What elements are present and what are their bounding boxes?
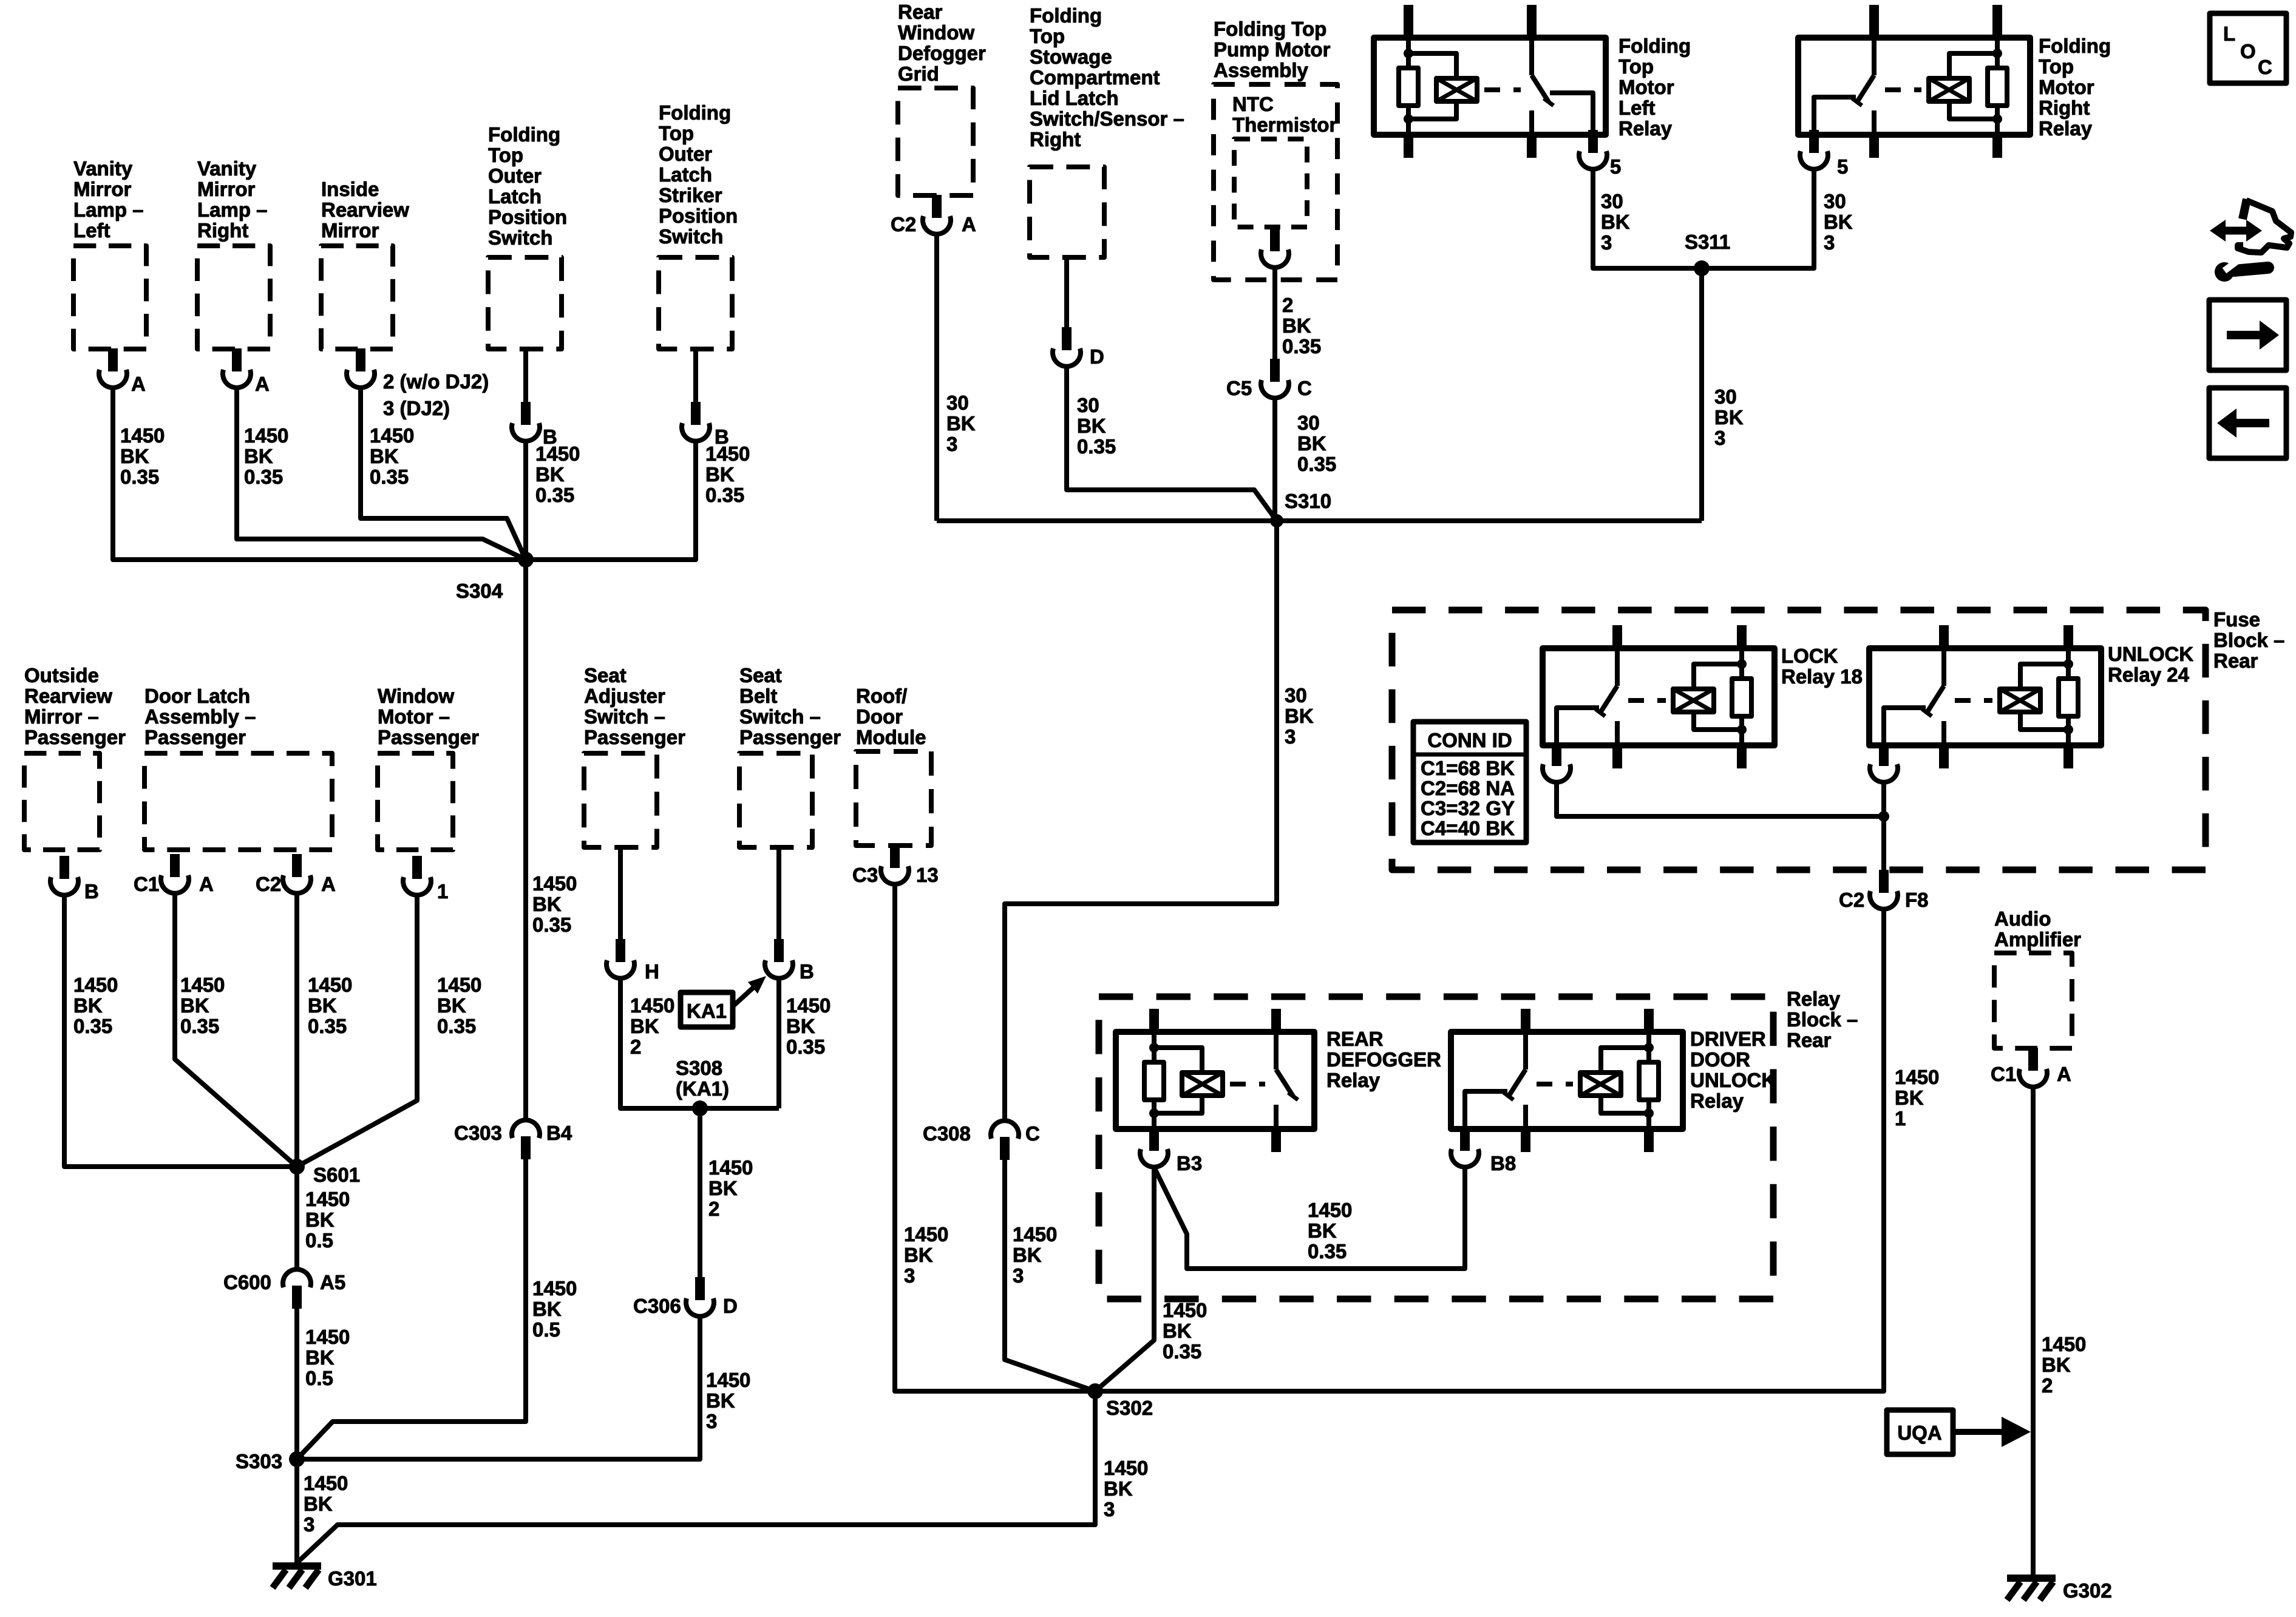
svg-text:BK: BK [1601, 211, 1630, 233]
svg-text:1450: 1450 [305, 1326, 350, 1348]
DRIVER DOOR UNLOCK resistor [1646, 1032, 1651, 1062]
svg-text:1450: 1450 [1163, 1299, 1207, 1321]
svg-text:Relay: Relay [1787, 988, 1841, 1010]
KA1 flag [681, 992, 733, 1027]
svg-text:S601: S601 [313, 1164, 360, 1186]
svg-text:Passenger: Passenger [24, 726, 126, 748]
svg-text:(KA1): (KA1) [676, 1077, 729, 1100]
svg-text:0.35: 0.35 [1308, 1240, 1347, 1263]
svg-text:0.35: 0.35 [120, 466, 159, 488]
svg-text:Seat: Seat [739, 664, 782, 686]
wire latch switch stub [523, 349, 528, 405]
svg-text:BK: BK [437, 994, 466, 1017]
wire C2-F8 down to S302 bus [1095, 909, 1884, 1391]
svg-text:G301: G301 [328, 1567, 377, 1590]
wire NTC to C5 [1272, 266, 1277, 362]
svg-text:30: 30 [1077, 394, 1099, 416]
svg-text:C600: C600 [223, 1271, 271, 1293]
wire defogger grid to S310 bus [934, 234, 939, 521]
connector C303 B4 [521, 1136, 531, 1159]
svg-text:Position: Position [488, 206, 567, 228]
folding top motor right relay body [1798, 38, 2030, 135]
svg-text:Door: Door [856, 705, 903, 728]
wire S601 down to C600 [294, 1167, 299, 1270]
svg-text:D: D [1090, 345, 1104, 368]
wire S303 down to ground [294, 1459, 299, 1562]
UQA arrow [1953, 1429, 2003, 1435]
svg-text:0.35: 0.35 [73, 1015, 112, 1037]
REAR DEFOGGER resistor [1152, 1032, 1156, 1062]
REAR DEFOGGER coil [1182, 1073, 1223, 1096]
svg-text:Relay: Relay [1618, 117, 1673, 140]
LOCK resistor [1739, 648, 1744, 679]
svg-text:0.35: 0.35 [786, 1036, 825, 1058]
svg-text:BK: BK [305, 1346, 335, 1369]
svg-text:Rear: Rear [2213, 649, 2258, 672]
splice S601 [289, 1159, 305, 1175]
svg-text:Left: Left [1618, 97, 1656, 119]
splice S310 [1270, 514, 1283, 527]
svg-text:30: 30 [1714, 385, 1737, 408]
svg-text:Right: Right [197, 219, 248, 242]
connector pin 2/3 (inside mirror) [356, 348, 365, 371]
DRIVER DOOR UNLOCK coil branch [1601, 1048, 1649, 1073]
connector C2 F8 [1879, 870, 1889, 893]
svg-text:B8: B8 [1490, 1152, 1516, 1175]
arrow icon left [2209, 388, 2286, 458]
folding top motor left resistor [1406, 38, 1411, 68]
folding top motor right coil dashes [1885, 87, 1921, 92]
svg-text:1: 1 [437, 880, 448, 903]
folding top motor left coil branch [1408, 53, 1456, 78]
svg-text:3: 3 [304, 1513, 314, 1536]
svg-text:0.35: 0.35 [1297, 453, 1336, 475]
svg-text:30: 30 [1601, 190, 1623, 212]
svg-text:L: L [2223, 22, 2235, 45]
svg-text:Lamp –: Lamp – [73, 198, 144, 221]
svg-text:C2: C2 [891, 213, 916, 236]
connector C5 C [1270, 359, 1280, 382]
connector pin B (striker switch) [691, 402, 701, 425]
wire roof module to S302 [895, 884, 1095, 1391]
svg-text:Thermistor: Thermistor [1232, 114, 1337, 136]
svg-text:S310: S310 [1285, 490, 1331, 512]
wire C5 to S310 [1272, 398, 1277, 521]
REAR DEFOGGER coil branch [1154, 1048, 1202, 1073]
svg-text:Assembly: Assembly [1214, 59, 1309, 81]
svg-text:BK: BK [1297, 432, 1326, 455]
svg-text:2: 2 [2042, 1374, 2053, 1397]
svg-text:Door Latch: Door Latch [144, 685, 250, 707]
svg-text:S304: S304 [456, 580, 503, 602]
svg-text:3: 3 [1714, 427, 1725, 449]
ground G302 [2007, 1575, 2056, 1582]
svg-text:1450: 1450 [437, 974, 481, 996]
svg-text:Mirror: Mirror [197, 178, 256, 200]
wire B to S308 [776, 978, 781, 1108]
svg-text:Folding: Folding [488, 123, 560, 146]
connector C308 C [1000, 1137, 1010, 1160]
svg-text:Top: Top [2039, 55, 2074, 78]
svg-text:BK: BK [535, 463, 565, 486]
svg-text:0.35: 0.35 [1282, 335, 1321, 358]
wire door latch C1 to S601 [175, 893, 297, 1167]
svg-text:C: C [1297, 377, 1312, 399]
Relay Block - Rear boundary [1099, 997, 1773, 1299]
svg-text:DOOR: DOOR [1690, 1048, 1750, 1071]
svg-text:A5: A5 [320, 1271, 345, 1293]
svg-text:Switch –: Switch – [584, 705, 665, 728]
svg-text:BK: BK [946, 412, 976, 435]
UNLOCK coil branch [2020, 664, 2068, 689]
wire H to S308 [620, 978, 779, 1108]
wire left relay to S311 [1593, 169, 1702, 268]
LOCK coil dashes [1628, 698, 1666, 703]
svg-text:Top: Top [659, 122, 694, 144]
svg-text:Relay 24: Relay 24 [2108, 663, 2190, 686]
connector pin (NTC thermistor) [1270, 228, 1280, 251]
svg-text:G302: G302 [2063, 1579, 2112, 1602]
svg-text:BK: BK [308, 994, 337, 1017]
svg-text:A: A [321, 873, 336, 895]
svg-text:BK: BK [532, 893, 562, 915]
svg-text:BK: BK [1285, 705, 1314, 727]
svg-text:Lamp –: Lamp – [197, 198, 268, 221]
svg-text:Rear: Rear [1787, 1029, 1832, 1051]
svg-text:NTC: NTC [1232, 93, 1274, 115]
svg-text:0.5: 0.5 [305, 1367, 333, 1389]
wire B3 down to S302 [1095, 1167, 1154, 1391]
DRIVER DOOR UNLOCK coil [1580, 1073, 1621, 1096]
svg-text:Pump Motor: Pump Motor [1214, 38, 1331, 61]
svg-text:1450: 1450 [244, 424, 288, 447]
LOC icon box [2210, 13, 2286, 83]
folding top motor left relay body [1374, 38, 1606, 135]
connector B8 (driver door unlock relay) [1461, 1129, 1469, 1145]
connector B3 (rear defogger relay) [1150, 1129, 1158, 1145]
svg-text:BK: BK [1824, 211, 1853, 233]
svg-text:B: B [800, 960, 814, 983]
svg-text:0.35: 0.35 [705, 484, 744, 506]
svg-text:2 (w/o DJ2): 2 (w/o DJ2) [383, 370, 489, 393]
svg-text:BK: BK [305, 1209, 335, 1231]
svg-text:H: H [645, 960, 659, 983]
svg-text:0.5: 0.5 [532, 1318, 560, 1341]
svg-text:1450: 1450 [904, 1223, 948, 1246]
svg-text:Module: Module [856, 726, 926, 748]
connector pin B (latch position switch) [521, 402, 531, 425]
svg-text:0.35: 0.35 [308, 1015, 347, 1037]
svg-text:A: A [962, 213, 976, 236]
svg-text:Vanity: Vanity [73, 157, 133, 180]
svg-text:Top: Top [1618, 55, 1654, 78]
svg-text:A: A [199, 873, 214, 895]
folding top motor right switch [1872, 38, 1877, 75]
LOCK relay pins [1612, 625, 1622, 648]
LOCK coil branch [1694, 664, 1742, 689]
DRIVER DOOR UNLOCK coil dashes [1537, 1082, 1573, 1086]
svg-text:Passenger: Passenger [144, 726, 246, 748]
svg-text:BK: BK [73, 994, 103, 1017]
svg-text:1: 1 [1895, 1107, 1906, 1130]
connector pin B (seat belt) [774, 939, 784, 962]
wire inside-mirror to S304 [361, 388, 526, 560]
svg-text:BK: BK [1308, 1219, 1337, 1242]
svg-text:Rearview: Rearview [24, 685, 112, 707]
LOCK relay body [1543, 648, 1775, 745]
svg-text:REAR: REAR [1326, 1028, 1384, 1050]
svg-text:Folding: Folding [2039, 35, 2111, 57]
wire striker switch to S304 [526, 441, 696, 560]
svg-text:Passenger: Passenger [584, 726, 685, 748]
wire C303 down [297, 1153, 526, 1459]
svg-text:1450: 1450 [532, 1277, 577, 1300]
connector pin 5 (left motor relay) [1589, 135, 1597, 148]
svg-text:Folding Top: Folding Top [1214, 18, 1326, 40]
splice S302 [1087, 1383, 1103, 1399]
wire window motor to S601 [297, 895, 417, 1167]
svg-text:Right: Right [1030, 128, 1081, 151]
svg-text:BK: BK [532, 1298, 562, 1320]
connector C306 D [695, 1277, 705, 1300]
svg-text:C306: C306 [633, 1295, 681, 1317]
svg-text:30: 30 [1824, 190, 1846, 212]
svg-text:1450: 1450 [2042, 1333, 2086, 1355]
svg-text:3 (DJ2): 3 (DJ2) [383, 397, 450, 419]
svg-text:Outer: Outer [659, 143, 712, 165]
svg-text:Window: Window [898, 21, 974, 44]
svg-text:Folding: Folding [1618, 35, 1691, 57]
svg-text:BK: BK [708, 1177, 738, 1199]
svg-text:Passenger: Passenger [378, 726, 479, 748]
svg-text:UNLOCK: UNLOCK [2108, 643, 2193, 665]
svg-text:0.5: 0.5 [305, 1229, 333, 1252]
wire vanity-left to S304 [113, 388, 526, 560]
svg-text:C303: C303 [454, 1122, 502, 1144]
svg-text:Switch: Switch [488, 226, 552, 249]
svg-text:Relay 18: Relay 18 [1781, 665, 1863, 688]
svg-text:0.35: 0.35 [437, 1015, 476, 1037]
svg-text:Block –: Block – [1787, 1008, 1858, 1031]
wire right relay to S311 [1702, 169, 1814, 268]
UNLOCK coil dashes [1955, 698, 1992, 703]
svg-text:0.35: 0.35 [370, 466, 409, 488]
svg-text:Outside: Outside [24, 664, 99, 686]
svg-text:Audio: Audio [1994, 907, 2051, 930]
splice S311 [1694, 260, 1710, 276]
svg-text:BK: BK [786, 1015, 815, 1037]
svg-text:C1=68 BK: C1=68 BK [1421, 757, 1515, 779]
svg-text:C: C [2258, 56, 2272, 78]
svg-text:Top: Top [1030, 25, 1065, 47]
svg-text:1450: 1450 [535, 442, 580, 465]
svg-text:BK: BK [180, 994, 209, 1017]
wire outside mirror to S601 [64, 895, 297, 1167]
wire S308 down to C306 [698, 1108, 702, 1281]
svg-text:S311: S311 [1685, 231, 1730, 253]
svg-text:Rearview: Rearview [321, 198, 409, 221]
svg-text:Seat: Seat [584, 664, 627, 686]
svg-text:1450: 1450 [73, 974, 118, 996]
svg-text:Window: Window [378, 685, 454, 707]
svg-text:2: 2 [630, 1036, 641, 1058]
svg-text:0.35: 0.35 [1077, 435, 1116, 458]
svg-text:BK: BK [1714, 406, 1744, 429]
connector C2 A (door latch) [292, 854, 302, 877]
connector pin D (lid latch) [1062, 327, 1072, 350]
DRIVER DOOR UNLOCK switch [1523, 1032, 1528, 1070]
svg-text:KA1: KA1 [687, 1000, 727, 1022]
wire S303 to C303 riser [297, 1422, 333, 1459]
connector C1 A (door latch) [170, 854, 180, 877]
svg-text:Switch: Switch [659, 225, 723, 248]
svg-text:Passenger: Passenger [739, 726, 841, 748]
splice S308 (KA1) [692, 1100, 708, 1116]
svg-text:BK: BK [1013, 1244, 1042, 1266]
svg-text:BK: BK [1104, 1477, 1133, 1500]
svg-text:1450: 1450 [1104, 1457, 1148, 1479]
svg-text:C1: C1 [1991, 1063, 2016, 1085]
svg-text:S308: S308 [676, 1057, 722, 1079]
wire C600 to S303 [294, 1303, 299, 1459]
svg-text:1450: 1450 [532, 872, 577, 895]
rear defogger relay pins [1149, 1009, 1159, 1032]
wire seat belt stub [776, 847, 781, 942]
svg-text:3: 3 [1013, 1264, 1024, 1287]
svg-text:BK: BK [304, 1493, 333, 1515]
svg-text:Relay: Relay [1690, 1090, 1744, 1112]
svg-text:Left: Left [73, 219, 110, 242]
svg-text:Mirror: Mirror [73, 178, 132, 200]
svg-text:LOCK: LOCK [1781, 645, 1838, 667]
svg-text:1450: 1450 [708, 1156, 753, 1179]
folding top motor left coil [1436, 78, 1477, 101]
svg-text:BK: BK [1282, 314, 1311, 337]
svg-text:Right: Right [2039, 97, 2090, 119]
svg-text:1450: 1450 [304, 1472, 348, 1494]
UNLOCK relay body [1869, 648, 2101, 745]
svg-text:BK: BK [904, 1244, 933, 1266]
svg-text:CONN ID: CONN ID [1427, 729, 1512, 751]
connector pin H (seat adjuster) [616, 939, 625, 962]
svg-text:1450: 1450 [120, 424, 165, 447]
svg-text:1450: 1450 [630, 994, 674, 1017]
svg-text:30: 30 [1285, 684, 1307, 707]
svg-text:BK: BK [2042, 1354, 2071, 1376]
svg-text:5: 5 [1610, 155, 1621, 178]
svg-text:A: A [2057, 1063, 2071, 1085]
svg-text:Relay: Relay [2039, 117, 2093, 140]
svg-text:2: 2 [708, 1198, 719, 1220]
connector pin A (vanity lamp right) [232, 348, 242, 371]
folding top motor right resistor [1995, 38, 2000, 68]
wire lid latch to S310 [1067, 367, 1277, 521]
svg-text:1450: 1450 [370, 424, 414, 447]
svg-text:Mirror: Mirror [321, 219, 379, 242]
wire vanity-right to S304 [237, 388, 526, 560]
svg-text:C2: C2 [1839, 889, 1864, 911]
svg-text:1450: 1450 [1895, 1066, 1939, 1088]
REAR DEFOGGER switch [1274, 1032, 1279, 1070]
svg-text:0.35: 0.35 [1163, 1340, 1201, 1363]
svg-text:3: 3 [1601, 231, 1612, 254]
svg-text:Belt: Belt [739, 685, 777, 707]
DRIVER DOOR UNLOCK relay body [1451, 1032, 1683, 1129]
svg-text:S303: S303 [236, 1450, 282, 1473]
UNLOCK switch [1941, 648, 1946, 686]
wire latch switch to S304 [523, 441, 528, 560]
UNLOCK relay pins [1939, 625, 1949, 648]
svg-text:Relay: Relay [1326, 1069, 1381, 1091]
svg-text:1450: 1450 [705, 442, 750, 465]
svg-text:B: B [84, 880, 99, 903]
wire S311 down to bus [1699, 268, 1704, 521]
folding top motor right coil [1929, 78, 1969, 101]
UQA flag [1887, 1410, 1953, 1454]
svg-text:A: A [131, 373, 146, 395]
svg-text:DRIVER: DRIVER [1690, 1028, 1766, 1050]
splice S303 [289, 1451, 305, 1467]
svg-text:C: C [1025, 1122, 1040, 1145]
svg-text:13: 13 [916, 864, 939, 886]
svg-text:Motor: Motor [1618, 76, 1674, 98]
left motor relay pins [1404, 5, 1413, 38]
svg-text:B3: B3 [1177, 1152, 1202, 1175]
wire UNLOCK down [1881, 782, 1886, 874]
svg-text:Block –: Block – [2213, 629, 2284, 651]
connector (LOCK relay output) [1552, 745, 1561, 760]
wire B3 to B8 [1154, 1167, 1465, 1269]
svg-text:A: A [255, 373, 270, 395]
wire main bus S310 [937, 518, 1702, 523]
svg-text:C308: C308 [923, 1122, 971, 1145]
wire audio amp to G302 [2031, 1087, 2036, 1575]
svg-text:B4: B4 [546, 1122, 572, 1144]
connector pin A (vanity lamp left) [108, 348, 118, 371]
connector (UNLOCK relay output) [1880, 745, 1888, 760]
REAR DEFOGGER coil dashes [1230, 1082, 1265, 1086]
connector C2 A (defogger grid) [932, 195, 942, 218]
UNLOCK coil [2000, 689, 2040, 712]
svg-text:BK: BK [1895, 1086, 1924, 1109]
svg-text:Adjuster: Adjuster [584, 685, 665, 707]
svg-text:O: O [2240, 40, 2256, 63]
svg-text:Switch –: Switch – [739, 705, 821, 728]
svg-text:F8: F8 [1905, 889, 1929, 911]
svg-text:C5: C5 [1226, 377, 1252, 399]
wire S310 to C308 [1005, 521, 1277, 1121]
svg-text:Outer: Outer [488, 164, 542, 187]
junction dot fuse block [1878, 811, 1889, 822]
svg-text:1450: 1450 [1013, 1223, 1057, 1246]
svg-text:Stowage: Stowage [1030, 46, 1112, 68]
svg-text:0.35: 0.35 [180, 1015, 219, 1037]
connector pin 1 (window motor) [412, 856, 422, 879]
wire door latch C2 to S601 [294, 893, 299, 1167]
svg-text:BK: BK [1163, 1320, 1192, 1342]
svg-text:Vanity: Vanity [197, 157, 257, 180]
Fuse Block - Rear boundary [1392, 610, 2206, 870]
svg-text:Mirror –: Mirror – [24, 705, 99, 728]
service icon (door and wrench) [2243, 199, 2247, 219]
svg-text:BK: BK [706, 1389, 735, 1412]
svg-text:Grid: Grid [898, 63, 939, 85]
svg-text:BK: BK [244, 445, 273, 467]
svg-text:Compartment: Compartment [1030, 66, 1160, 89]
svg-text:Latch: Latch [659, 163, 712, 186]
svg-text:UQA: UQA [1897, 1422, 1941, 1444]
connector C600 A5 [292, 1286, 302, 1309]
